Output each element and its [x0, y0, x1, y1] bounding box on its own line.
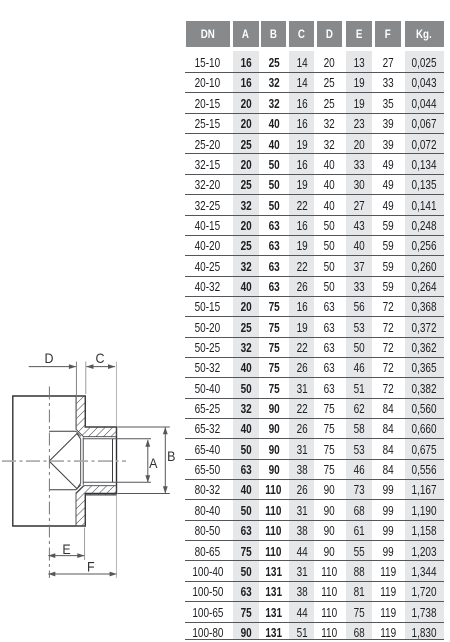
dim C line [86, 366, 115, 368]
bore bottom line + A extension [83, 481, 151, 483]
bore top line + A extension [83, 438, 151, 440]
extension line D [75, 362, 77, 430]
svg-text:D: D [45, 351, 54, 367]
svg-text:F: F [87, 559, 95, 575]
dim B line [164, 428, 166, 493]
horizontal centerline [2, 460, 126, 462]
dim F line [48, 573, 116, 575]
table header row [186, 21, 230, 47]
chamfer bottom [76, 485, 81, 490]
svg-text:A: A [149, 455, 158, 471]
dim D line [29, 366, 76, 368]
hatched bottom wall [76, 486, 117, 526]
svg-text:E: E [62, 542, 71, 558]
B extension bottom [118, 493, 170, 495]
vertical centerline [48, 387, 50, 579]
cone upper [49, 434, 80, 462]
cavity bottom line [49, 489, 76, 491]
extension E right [84, 528, 86, 561]
bore mouth verticals [81, 438, 84, 485]
svg-text:B: B [167, 449, 175, 465]
dim A line [147, 440, 149, 482]
extension line C-left [85, 362, 87, 395]
row separator lines [185, 72, 444, 73]
chamfer top [76, 431, 81, 436]
gray column stripes [233, 51, 259, 640]
hatched top wall [76, 396, 117, 437]
extension line C/F right upper [115, 362, 117, 427]
table data cells [186, 52, 230, 72]
svg-text:C: C [96, 351, 105, 367]
body outline [13, 396, 117, 526]
cavity top line [49, 430, 76, 432]
cone lower [49, 461, 80, 489]
bore end face [112, 439, 114, 483]
B extension top [118, 426, 170, 428]
extension line F right lower [115, 495, 117, 579]
dim E line [48, 555, 84, 557]
